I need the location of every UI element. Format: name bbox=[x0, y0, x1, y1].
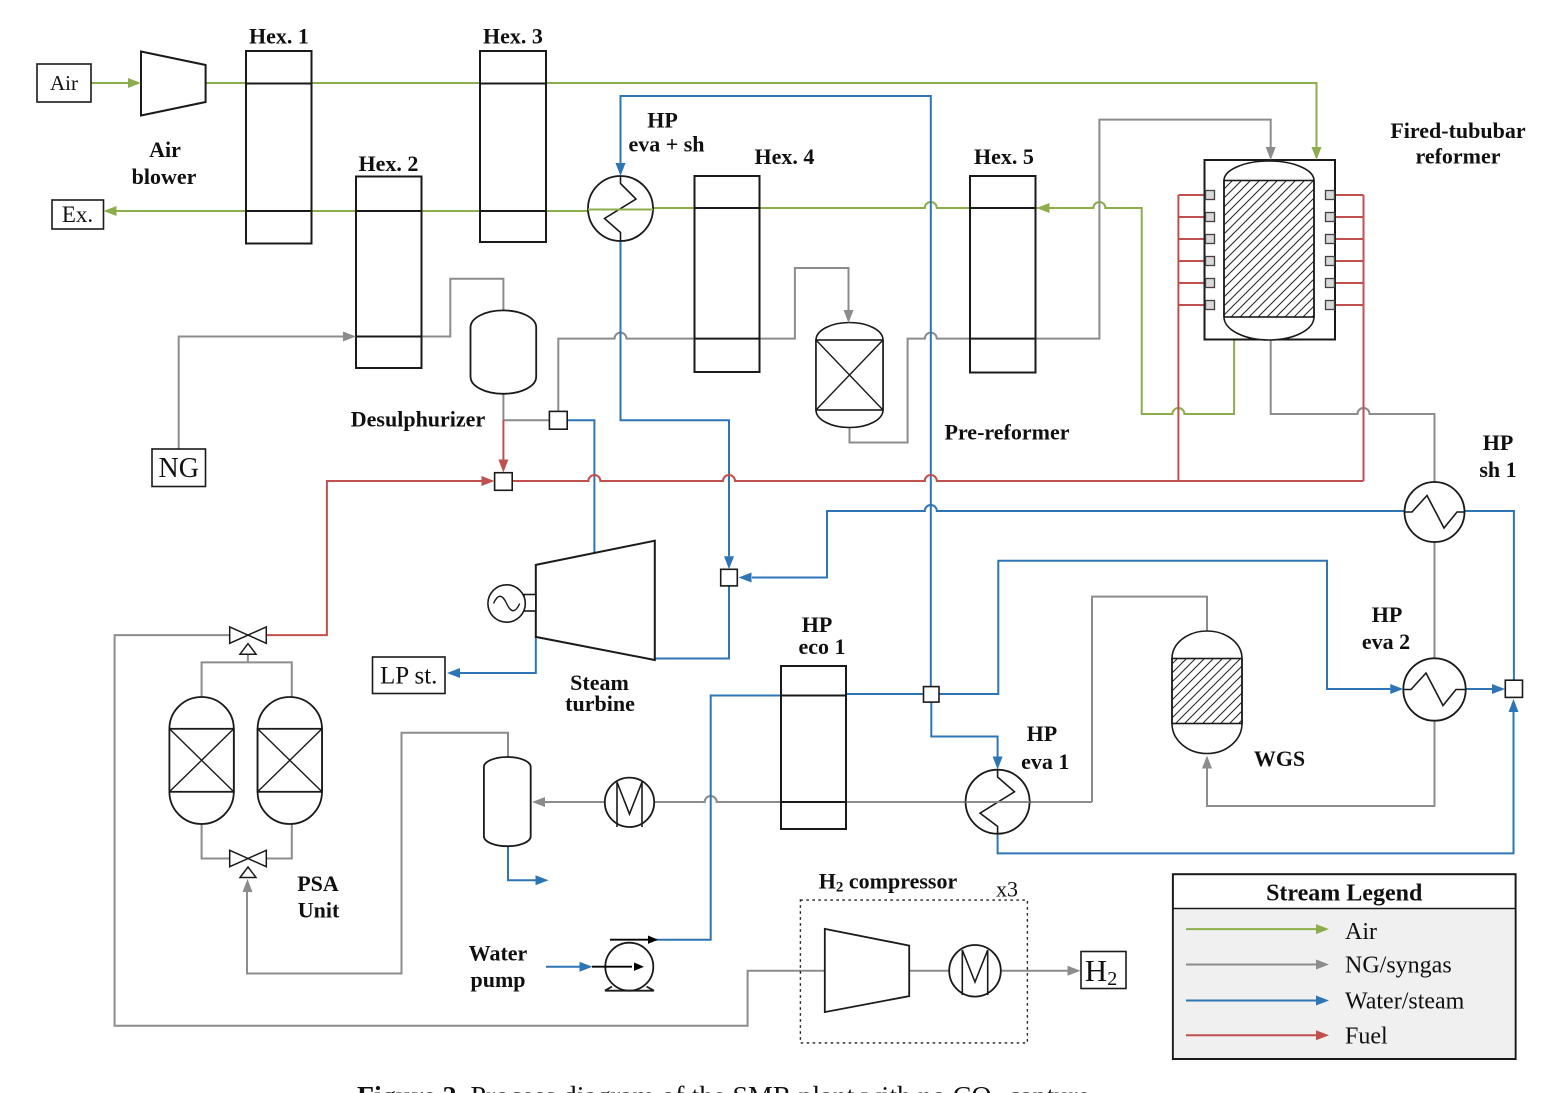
svg-text:Desulphurizer: Desulphurizer bbox=[351, 407, 486, 432]
svg-text:Water/steam: Water/steam bbox=[1345, 989, 1465, 1015]
svg-text:PSA: PSA bbox=[297, 871, 339, 896]
svg-text:HP: HP bbox=[1483, 430, 1514, 455]
svg-text:HP: HP bbox=[1372, 602, 1403, 627]
svg-text:eva + sh: eva + sh bbox=[628, 132, 704, 157]
svg-text:NG/syngas: NG/syngas bbox=[1345, 953, 1452, 979]
svg-text:HP: HP bbox=[1027, 721, 1058, 746]
svg-text:Stream Legend: Stream Legend bbox=[1266, 881, 1423, 907]
svg-text:Air: Air bbox=[1345, 919, 1377, 945]
svg-text:Air: Air bbox=[50, 71, 78, 95]
svg-text:Water: Water bbox=[469, 941, 528, 966]
svg-text:Unit: Unit bbox=[298, 898, 340, 923]
svg-text:eco 1: eco 1 bbox=[798, 634, 845, 659]
svg-text:Hex. 3: Hex. 3 bbox=[483, 24, 543, 49]
svg-text:Figure 2. Process diagram of t: Figure 2. Process diagram of the SMR pla… bbox=[357, 1081, 1097, 1093]
svg-text:Hex. 5: Hex. 5 bbox=[974, 144, 1034, 169]
svg-text:turbine: turbine bbox=[565, 691, 635, 716]
svg-text:Ex.: Ex. bbox=[62, 202, 93, 227]
svg-text:HP: HP bbox=[647, 108, 678, 133]
svg-text:Fuel: Fuel bbox=[1345, 1023, 1388, 1049]
svg-text:blower: blower bbox=[132, 164, 197, 189]
svg-text:LP st.: LP st. bbox=[380, 663, 437, 690]
svg-text:Fired-tububar: Fired-tububar bbox=[1390, 118, 1526, 143]
svg-text:Hex. 2: Hex. 2 bbox=[359, 151, 419, 176]
svg-text:Hex. 4: Hex. 4 bbox=[755, 144, 815, 169]
svg-text:Pre-reformer: Pre-reformer bbox=[945, 420, 1070, 445]
svg-text:pump: pump bbox=[470, 967, 525, 992]
svg-text:Air: Air bbox=[149, 137, 181, 162]
svg-text:Hex. 1: Hex. 1 bbox=[249, 24, 309, 49]
svg-text:eva 2: eva 2 bbox=[1362, 629, 1410, 654]
svg-text:NG: NG bbox=[158, 453, 198, 484]
svg-text:reformer: reformer bbox=[1415, 144, 1500, 169]
svg-text:x3: x3 bbox=[996, 877, 1018, 902]
svg-text:eva 1: eva 1 bbox=[1021, 749, 1069, 774]
svg-text:WGS: WGS bbox=[1254, 746, 1305, 771]
svg-text:sh 1: sh 1 bbox=[1479, 457, 1516, 482]
